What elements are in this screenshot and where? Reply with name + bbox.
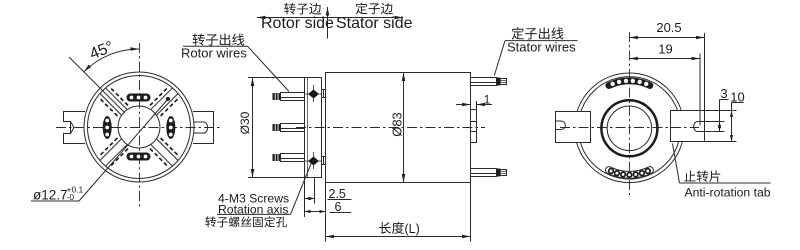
anti-rotation leader (673, 144, 680, 184)
svg-text:45°: 45° (87, 38, 116, 63)
svg-text:-0: -0 (67, 192, 75, 202)
right view bore outer (601, 100, 657, 156)
right view horizontal centerline (560, 127, 699, 129)
flange-body step top (322, 89, 326, 91)
dim 10 (731, 103, 733, 142)
length dimension line (326, 236, 471, 238)
rotor/stator side divider arrow (257, 17, 403, 19)
south wire slot (127, 153, 151, 161)
dim 3 extension lines (705, 121, 725, 123)
stator wire terminal 1 (471, 78, 497, 86)
svg-text:3: 3 (720, 86, 727, 101)
rotor wire terminal 2 (281, 124, 305, 132)
dia12.7 underline (31, 200, 79, 202)
flange-body step bottom (322, 156, 326, 158)
label rotor side CN (284, 3, 296, 15)
stator wires leader (494, 41, 505, 76)
left view horizontal centerline (56, 127, 222, 129)
svg-text:6: 6 (335, 200, 342, 214)
length dim extension lines (325, 183, 327, 242)
rotor wires leader (248, 46, 290, 91)
anti-rotation underline (680, 182, 771, 184)
svg-text:10: 10 (730, 90, 744, 105)
left view left tab (64, 112, 86, 144)
stator wires underline (505, 40, 578, 42)
svg-text:ø12.7: ø12.7 (33, 188, 68, 203)
east wire slot (166, 116, 175, 139)
45deg dimension arc (84, 49, 139, 72)
dim 3 (719, 100, 721, 132)
dia12.7 leader (79, 99, 168, 201)
label anti-rotation tab CN (684, 170, 695, 181)
left view vertical centerline (139, 43, 141, 207)
dia30 extension lines (248, 77, 305, 79)
dia83 dimension line (403, 73, 405, 183)
rotor flange plate (305, 78, 322, 178)
right view left tab (556, 112, 591, 143)
dia30 dimension line (252, 78, 254, 178)
stator wire terminal 2 (471, 169, 497, 177)
cross slot arms (X pattern) (151, 88, 173, 110)
svg-text:19: 19 (658, 42, 672, 57)
svg-text:Stator wires: Stator wires (507, 39, 576, 54)
svg-text:Stator side: Stator side (336, 15, 413, 32)
rotor wires underline (183, 45, 248, 47)
right view outer circle inner edge (578, 77, 680, 179)
svg-text:2.5: 2.5 (329, 187, 346, 201)
svg-text:Ø83: Ø83 (390, 112, 405, 137)
right view bore inner (607, 106, 652, 151)
anti-rotation tab side view (471, 110, 477, 143)
M3 screw 1 (308, 90, 319, 99)
4-M3 leader (291, 163, 312, 215)
left view right tab (193, 112, 214, 144)
svg-text:20.5: 20.5 (656, 20, 681, 35)
label stator wires CN (512, 27, 524, 39)
length text (379, 222, 391, 234)
label stator side CN (356, 2, 368, 14)
left view outer circle (84, 72, 194, 182)
45deg reference line (69, 57, 125, 113)
dim 20.5 (629, 37, 704, 39)
svg-text:Anti-rotation tab: Anti-rotation tab (685, 185, 771, 199)
north wire slot (127, 94, 151, 102)
dim 1 extension (476, 101, 478, 110)
svg-text:(L): (L) (405, 222, 420, 236)
west wire slot (103, 116, 112, 139)
right view top wire slot (605, 77, 653, 89)
svg-text:1: 1 (484, 93, 491, 107)
flange inner edge (307, 78, 309, 178)
M3 screw 2 (308, 157, 319, 166)
side view centerline (296, 127, 485, 129)
left view center bore (118, 106, 160, 148)
right view vertical centerline (629, 32, 631, 195)
dim extension lines bottom-left (304, 178, 306, 218)
rotor wire terminal 1 (281, 93, 305, 101)
dim 1 (456, 104, 470, 106)
svg-text:Rotor wires: Rotor wires (181, 46, 247, 61)
right view right tab (anti-rotation) (671, 111, 705, 142)
rotor wire terminal 3 (281, 154, 305, 162)
label rotor wires CN (193, 34, 205, 46)
stator body (326, 73, 471, 183)
left view outer circle inner edge (88, 76, 191, 179)
svg-text:Rotor side: Rotor side (261, 15, 334, 32)
dim 6 (305, 211, 326, 213)
dim 19 (629, 58, 700, 60)
dim 2.5 (305, 198, 315, 200)
dim 19/20.5 extension lines (699, 54, 701, 126)
dim 10 extension lines (705, 110, 737, 112)
label rotor screw holes CN (205, 216, 216, 227)
svg-text:Ø30: Ø30 (238, 111, 252, 134)
right view bottom wire slot (605, 167, 653, 179)
4-M3 underline (217, 213, 291, 215)
right view outer circle (575, 73, 685, 183)
